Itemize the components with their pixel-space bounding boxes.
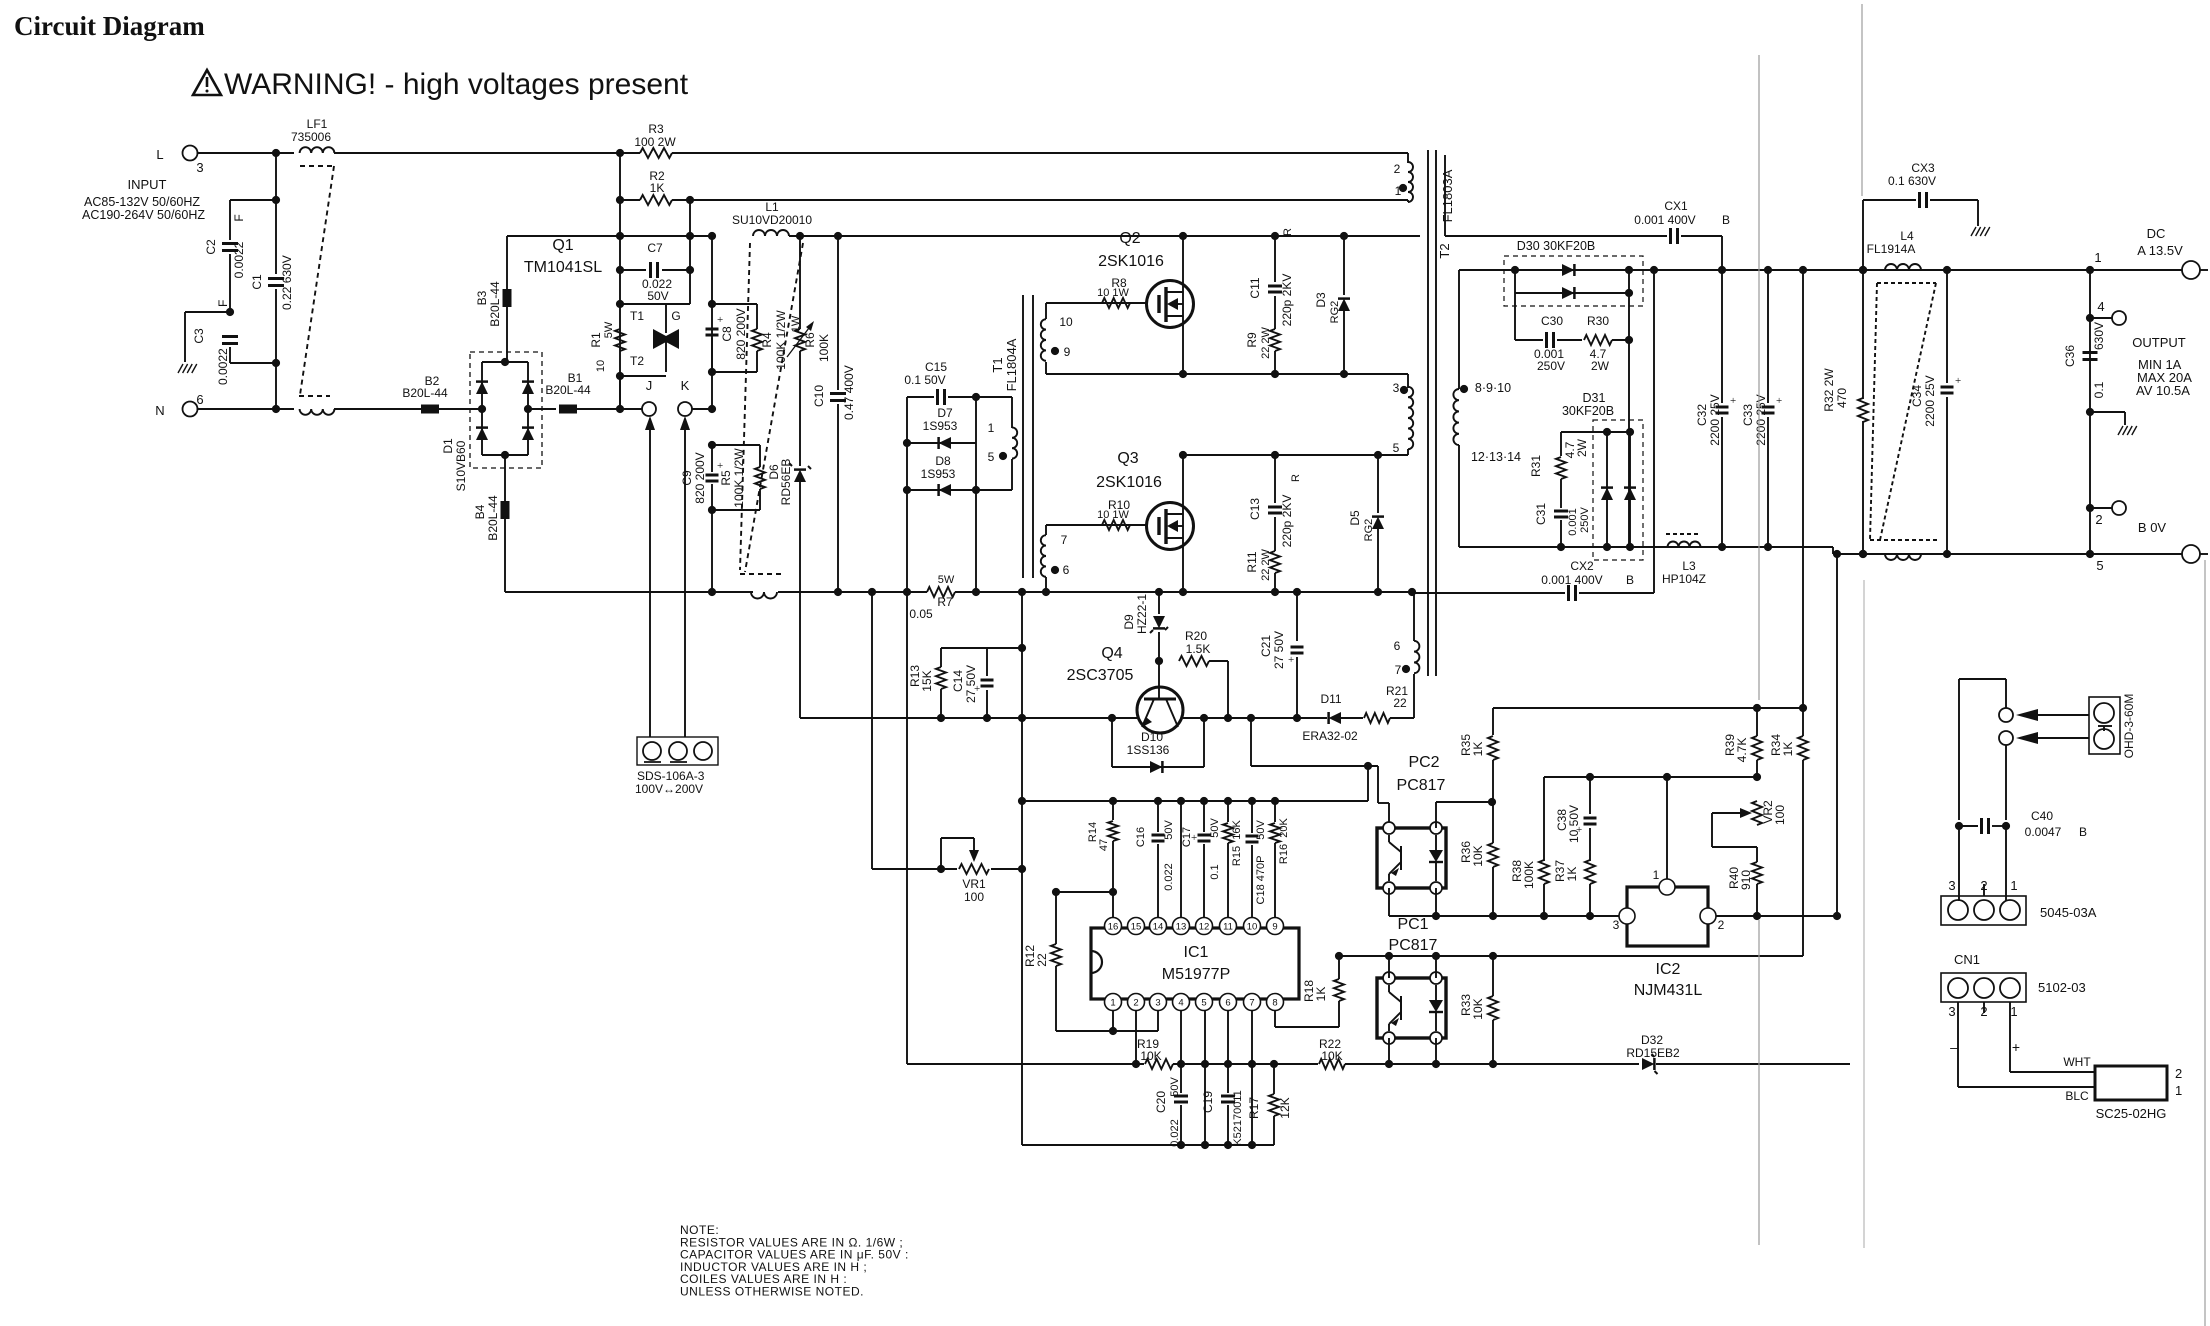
svg-text:C36: C36 xyxy=(2063,345,2077,367)
wire D10 row xyxy=(1112,766,1204,768)
wire R16 bottom xyxy=(1274,843,1276,918)
svg-text:3: 3 xyxy=(196,160,203,175)
wire D31a vertical xyxy=(1606,432,1608,547)
wire low rail e xyxy=(1491,1063,1639,1065)
junction C7 right xyxy=(686,266,694,274)
junction ctrl rail col1181 xyxy=(1177,797,1185,805)
terminal N xyxy=(183,402,198,417)
label T2 pin3 xyxy=(1393,381,1400,395)
label C7 volt xyxy=(647,289,668,303)
svg-text:DC: DC xyxy=(2147,226,2166,241)
resistor R39 xyxy=(1752,736,1762,760)
svg-text:L1: L1 xyxy=(765,200,779,214)
junction R13 bottom xyxy=(937,714,945,722)
label D7 xyxy=(937,406,953,420)
label Q3 xyxy=(1117,450,1138,467)
svg-text:VR1: VR1 xyxy=(962,877,986,891)
junction ctrl rail col1252 xyxy=(1248,797,1256,805)
svg-text:30KF20B: 30KF20B xyxy=(1562,404,1614,418)
potentiometer VR1 xyxy=(959,864,989,874)
label CX1 value xyxy=(1634,213,1695,227)
junction R12 top xyxy=(1052,888,1060,896)
svg-text:+: + xyxy=(1288,654,1294,666)
svg-text:B20L-44: B20L-44 xyxy=(545,383,591,397)
wire VR1 wire xyxy=(872,868,957,870)
wire R38 top lead xyxy=(1543,777,1545,861)
wire R13C14 top xyxy=(941,647,1022,649)
resistor R5 xyxy=(755,467,765,489)
svg-text:6: 6 xyxy=(1394,639,1401,653)
svg-text:T2: T2 xyxy=(630,354,644,368)
label C15 value xyxy=(904,373,945,387)
wire PC2 tap drop xyxy=(1250,718,1252,766)
svg-text:10: 10 xyxy=(1059,315,1073,329)
svg-text:3: 3 xyxy=(1613,918,1620,932)
label B3 xyxy=(475,290,489,305)
resistor R17 xyxy=(1269,1094,1279,1116)
label R1 5W xyxy=(603,321,615,338)
resistor R14 xyxy=(1108,821,1118,841)
label R38 value xyxy=(1522,861,1536,889)
svg-text:C30: C30 xyxy=(1541,314,1563,328)
svg-text:D1: D1 xyxy=(441,438,455,454)
label C3 value xyxy=(216,348,230,385)
svg-text:HP104Z: HP104Z xyxy=(1662,572,1706,586)
mosfet Q2 xyxy=(1147,281,1194,328)
svg-text:AC190-264V 50/60HZ: AC190-264V 50/60HZ xyxy=(82,208,205,222)
wire C7 left stub xyxy=(620,269,646,271)
svg-text:0.1: 0.1 xyxy=(1209,864,1221,879)
label C1 value xyxy=(280,255,294,310)
label BLC xyxy=(2065,1089,2089,1103)
arrow from selector to J xyxy=(649,426,651,737)
wire T2 p2 top xyxy=(1407,153,1409,163)
wire bottom rail xyxy=(1022,1144,1274,1146)
label R37 xyxy=(1553,860,1567,882)
label R8 xyxy=(1111,276,1127,290)
svg-text:SC25-02HG: SC25-02HG xyxy=(2096,1106,2167,1121)
label R9 value xyxy=(1260,326,1272,358)
label R8 value xyxy=(1097,287,1129,299)
label R14 xyxy=(1087,822,1099,842)
label R34 xyxy=(1769,734,1783,756)
junction out neg xyxy=(2086,550,2094,558)
svg-text:+: + xyxy=(1730,395,1736,407)
label R35 xyxy=(1459,734,1473,756)
junction pin4 xyxy=(2086,314,2094,322)
label R40 value xyxy=(1739,870,1753,890)
wire x690 vertical xyxy=(689,200,691,304)
terminal pin2 xyxy=(2112,501,2126,515)
wire R14 bottom xyxy=(1112,841,1114,918)
wire C9 above xyxy=(711,445,713,472)
svg-text:WHT: WHT xyxy=(2063,1055,2091,1069)
label 1 out xyxy=(2094,250,2101,265)
junction pin2 rail xyxy=(1132,1060,1140,1068)
label C40 value xyxy=(2025,825,2062,839)
inductor L4 top xyxy=(1885,264,1921,270)
junction snubber out xyxy=(1625,336,1633,344)
wire R9 bottom lead xyxy=(1274,351,1276,374)
wire R33 bottom lead xyxy=(1492,1020,1494,1064)
svg-text:R: R xyxy=(1282,228,1294,236)
svg-text:C20: C20 xyxy=(1154,1091,1168,1113)
svg-text:10 1W: 10 1W xyxy=(1097,509,1129,521)
wire R34 top lead xyxy=(1802,708,1804,736)
svg-text:10K: 10K xyxy=(1321,1049,1342,1063)
svg-text:0.022: 0.022 xyxy=(1163,863,1175,891)
svg-text:100: 100 xyxy=(964,890,984,904)
svg-text:250V: 250V xyxy=(1579,506,1591,532)
wire T2 p1 bottom xyxy=(1407,200,1409,202)
junction rail x976 xyxy=(972,588,980,596)
wire R20 right xyxy=(1209,660,1228,662)
wire sec top rail xyxy=(1459,269,2090,271)
label R14 value xyxy=(1098,839,1110,851)
label R18 value xyxy=(1314,987,1328,1002)
wire Q1 box bottom xyxy=(620,375,666,377)
resistor R38 xyxy=(1539,860,1549,884)
svg-text:0.22 630V: 0.22 630V xyxy=(280,255,294,310)
label CX3 value xyxy=(1888,174,1936,188)
wire R21 to T2 xyxy=(1390,717,1414,719)
svg-text:100K 1/2W: 100K 1/2W xyxy=(774,310,788,370)
capacitor C11 xyxy=(1268,286,1282,292)
wire CX1 drop xyxy=(1721,236,1723,270)
svg-text:B: B xyxy=(1722,213,1730,227)
wire source bus Q2 xyxy=(1046,373,1408,375)
junction Q2 drain rail xyxy=(1179,232,1187,240)
label 1W xyxy=(790,315,802,332)
wire V+ sense xyxy=(1802,270,1804,708)
terminal K xyxy=(678,402,692,416)
bead B2 xyxy=(421,405,439,414)
label R18 xyxy=(1302,980,1316,1002)
wire out gnd stub xyxy=(2090,411,2125,413)
wire R17 top xyxy=(1273,1064,1275,1094)
terminal J xyxy=(642,402,656,416)
label pin3 CN1 xyxy=(1948,1004,1955,1019)
junction C15 right xyxy=(972,393,980,401)
wire R17 bottom xyxy=(1273,1116,1275,1145)
wire T1 pin1 drop xyxy=(1011,397,1013,428)
rectifier D30 dashed box xyxy=(1504,256,1643,306)
diode D3 xyxy=(1338,299,1350,311)
bead B4 xyxy=(501,501,510,519)
resistor R6 xyxy=(795,329,805,351)
svg-text:M51977P: M51977P xyxy=(1162,966,1231,983)
wire Q3 source xyxy=(1182,538,1184,592)
junction rail x1022 xyxy=(1018,588,1026,596)
junction D10 right xyxy=(1200,714,1208,722)
label C40 B xyxy=(2079,825,2087,839)
polarity dot T2p7 xyxy=(1402,665,1410,673)
wire rail916 seg xyxy=(1716,915,1837,917)
junction D3 top xyxy=(1340,232,1348,240)
wire R36 bottom lead xyxy=(1492,867,1494,916)
label R38 xyxy=(1510,860,1524,882)
label R19 value xyxy=(1140,1049,1161,1063)
junction ctrl rail left xyxy=(1018,797,1026,805)
label B2 part xyxy=(402,386,448,400)
wire C38-R37 lead xyxy=(1589,828,1591,861)
junction D7 left xyxy=(903,439,911,447)
svg-text:OHD-3-60M: OHD-3-60M xyxy=(2122,694,2136,759)
inductor L4 bottom xyxy=(1885,554,1921,560)
wire C2 branch top xyxy=(230,199,276,201)
label C38 xyxy=(1555,809,1569,831)
bridge diode bottom-left xyxy=(476,428,488,440)
wire to B0V xyxy=(2090,553,2182,555)
wire BLC xyxy=(1958,1086,2095,1088)
capacitor C40 xyxy=(1982,818,1989,834)
svg-text:1K: 1K xyxy=(1471,742,1485,757)
svg-text:+: + xyxy=(1955,375,1961,387)
junction C21 bottom xyxy=(1293,714,1301,722)
junction C11 top xyxy=(1271,232,1279,240)
label R22 xyxy=(1319,1037,1341,1051)
wire CX3 right xyxy=(1930,199,1978,201)
label D8 part xyxy=(921,467,956,481)
wire C38 top lead xyxy=(1589,777,1591,814)
bridge node top xyxy=(501,358,509,366)
label R32 value xyxy=(1835,388,1849,408)
svg-text:B20L-44: B20L-44 xyxy=(402,386,448,400)
svg-text:R7: R7 xyxy=(937,595,953,609)
svg-text:C8: C8 xyxy=(720,326,734,342)
svg-text:910: 910 xyxy=(1739,870,1753,890)
wire R31 top lead xyxy=(1560,432,1562,456)
svg-text:4: 4 xyxy=(1178,998,1183,1009)
wire D3 top lead xyxy=(1343,236,1345,295)
wire CN1 pin1 drop xyxy=(2009,1002,2011,1072)
svg-text:R16: R16 xyxy=(1278,844,1290,864)
wire conn3 drop xyxy=(1958,826,1960,901)
label AC85-132V xyxy=(84,195,200,209)
inductor L3 xyxy=(1668,542,1701,547)
junction VR1 x1022 xyxy=(1018,865,1026,873)
junction C9 top xyxy=(708,441,716,449)
bridge diode top-left xyxy=(476,382,488,394)
label D10 xyxy=(1141,730,1163,744)
wire R5 top xyxy=(759,445,761,467)
label C40 xyxy=(2031,809,2053,823)
wire PC1 cathode down xyxy=(1435,1038,1437,1064)
scan line bottom right xyxy=(1863,580,1865,1248)
svg-text:22 2W: 22 2W xyxy=(1260,326,1272,358)
wire LF1b to B2 xyxy=(334,408,416,410)
svg-text:50V: 50V xyxy=(1255,820,1267,840)
capacitor C21 electrolytic xyxy=(1288,647,1304,666)
svg-text:9: 9 xyxy=(1272,922,1277,933)
wire D3 bottom lead xyxy=(1343,311,1345,374)
svg-text:100V↔200V: 100V↔200V xyxy=(635,782,703,796)
svg-text:1: 1 xyxy=(988,421,995,435)
wire D5 top lead xyxy=(1377,455,1379,513)
label R31 watt xyxy=(1575,438,1589,457)
svg-text:PC2: PC2 xyxy=(1408,754,1439,771)
wire x907 vertical xyxy=(906,397,908,592)
wire R35 top lead xyxy=(1492,708,1494,735)
wire low rail d xyxy=(1389,1063,1491,1065)
wire R13 bottom lead xyxy=(940,689,942,718)
wire pin4 down xyxy=(1180,1010,1182,1064)
junction PC1 cathode xyxy=(1432,1060,1440,1068)
junction rail Q3src xyxy=(1179,588,1187,596)
junction R17 top xyxy=(1270,1060,1278,1068)
label pin9 xyxy=(1064,345,1071,359)
label C13 R xyxy=(1290,474,1302,482)
junction rail C21 xyxy=(1293,588,1301,596)
wire N to B2 xyxy=(416,408,445,410)
svg-text:2200 25V: 2200 25V xyxy=(1708,394,1722,445)
wire R6 to D6 xyxy=(799,351,801,466)
wire gate Q3 xyxy=(1046,524,1146,526)
resistor R7 xyxy=(927,587,955,597)
wire primary rail right xyxy=(955,591,1412,593)
winding T2 3-5 xyxy=(1408,387,1413,449)
svg-text:2: 2 xyxy=(1980,1004,1987,1019)
svg-text:250V: 250V xyxy=(1537,359,1565,373)
junction C8 top xyxy=(708,300,716,308)
label CX3 xyxy=(1911,161,1935,175)
junction R9 bottom xyxy=(1271,370,1279,378)
svg-text:15K: 15K xyxy=(920,670,934,691)
wire C10 vertical top xyxy=(837,236,839,390)
wire R39 top lead xyxy=(1756,708,1758,736)
label R20 xyxy=(1185,629,1207,643)
junction R39 top xyxy=(1753,704,1761,712)
svg-text:B20L-44: B20L-44 xyxy=(488,281,502,327)
label IC2 part xyxy=(1634,982,1703,999)
wire C13 top lead xyxy=(1274,455,1276,503)
wire ctrl rail xyxy=(1022,800,1368,802)
junction PC1 emitter xyxy=(1385,1060,1393,1068)
wire ref rail xyxy=(1544,776,1757,778)
wire C21 top lead xyxy=(1296,592,1298,641)
stub DC+ xyxy=(2200,269,2208,271)
svg-text:B: B xyxy=(1626,573,1634,587)
junction D31 bottom a xyxy=(1603,543,1611,551)
svg-text:RD15EB2: RD15EB2 xyxy=(1626,1046,1680,1060)
wire R5 bottom xyxy=(759,489,761,510)
svg-text:8·9·10: 8·9·10 xyxy=(1475,381,1511,395)
junction R1 bottom xyxy=(616,372,624,380)
wire C3 bottom lead xyxy=(229,347,231,363)
diode D30a xyxy=(1562,264,1574,276)
wire C40 left lead xyxy=(1959,825,1978,827)
wire C17 bottom xyxy=(1203,844,1205,918)
label D11 xyxy=(1320,692,1341,706)
wire w6 down xyxy=(1045,577,1047,592)
svg-text:R5: R5 xyxy=(719,470,733,486)
wire D30 out vertical xyxy=(1628,270,1630,547)
capacitor C8 electrolytic xyxy=(706,314,724,335)
resistor R33 xyxy=(1488,996,1498,1020)
wire CX3 left xyxy=(1863,199,1916,201)
svg-text:16K: 16K xyxy=(1231,820,1243,840)
wire B4 to rail xyxy=(504,519,506,592)
resistor R21 xyxy=(1364,713,1390,723)
label C8 xyxy=(720,326,734,342)
svg-text:2: 2 xyxy=(1718,918,1725,932)
arrow th1 xyxy=(2038,714,2089,716)
resistor R13 xyxy=(936,667,946,689)
label C7 value xyxy=(642,277,672,291)
svg-text:C9: C9 xyxy=(680,470,694,486)
svg-text:C11: C11 xyxy=(1248,277,1262,298)
wire C2 top lead xyxy=(229,200,231,240)
svg-text:2SC3705: 2SC3705 xyxy=(1067,667,1134,684)
svg-text:5045-03A: 5045-03A xyxy=(2040,905,2097,920)
label L4 part xyxy=(1867,242,1916,256)
svg-text:4: 4 xyxy=(2097,299,2104,314)
arrow from selector to K xyxy=(684,426,686,737)
inductor L1 top xyxy=(753,230,789,236)
svg-text:A 13.5V: A 13.5V xyxy=(2137,243,2183,258)
junction PC2 cathode xyxy=(1432,912,1440,920)
label R12 xyxy=(1023,945,1037,967)
wire C16 bottom xyxy=(1157,844,1159,918)
junction R12 tap xyxy=(1109,888,1117,896)
label OUTPUT xyxy=(2132,335,2186,350)
label D5 xyxy=(1348,510,1362,526)
resistor R18 xyxy=(1334,979,1344,1001)
wire N to LF1 xyxy=(197,408,295,410)
junction C1 top xyxy=(272,196,280,204)
svg-text:10K: 10K xyxy=(1471,998,1485,1019)
wire C19 bottom xyxy=(1227,1105,1229,1145)
label CX1 xyxy=(1664,199,1688,213)
wire w7 up xyxy=(1045,525,1047,535)
wire snubber row b xyxy=(1557,339,1582,341)
label D8 xyxy=(935,454,951,468)
wire gnd stub xyxy=(185,311,230,313)
label C20 xyxy=(1154,1091,1168,1113)
svg-text:+: + xyxy=(717,460,723,472)
junction L4 bottom out xyxy=(1943,550,1951,558)
wire C11 top lead xyxy=(1274,236,1276,282)
terminal th1 xyxy=(1999,708,2013,722)
svg-text:100: 100 xyxy=(1773,805,1787,825)
wire C7 right stub xyxy=(662,269,690,271)
wire K to x712 xyxy=(692,408,712,410)
wire L4 out bottom xyxy=(1917,553,2090,555)
wire C34 top lead xyxy=(1946,270,1948,383)
ground output xyxy=(2118,426,2137,435)
label B3 part xyxy=(488,281,502,327)
resistor R35 xyxy=(1488,736,1498,760)
label K xyxy=(681,378,690,393)
label WHT xyxy=(2063,1055,2091,1069)
label N xyxy=(155,403,164,418)
variable arrow on R6 xyxy=(787,324,812,357)
wire opto gnd rail xyxy=(1389,915,1619,917)
mosfet Q3 xyxy=(1147,503,1194,550)
inductor LF1 top winding xyxy=(300,147,335,153)
junction pin6 rail xyxy=(1224,1060,1232,1068)
wire 0V sense xyxy=(1836,554,1838,916)
diode D30b xyxy=(1562,287,1574,299)
svg-text:C15: C15 xyxy=(925,360,947,374)
label PC2 part xyxy=(1397,777,1446,794)
junction D31 bottom b xyxy=(1626,543,1634,551)
svg-text:CN1: CN1 xyxy=(1954,952,1980,967)
capacitor C15 xyxy=(938,389,945,405)
label D31 xyxy=(1583,391,1606,405)
svg-text:FL1804A: FL1804A xyxy=(1004,338,1019,391)
label R22 value xyxy=(1321,1049,1342,1063)
